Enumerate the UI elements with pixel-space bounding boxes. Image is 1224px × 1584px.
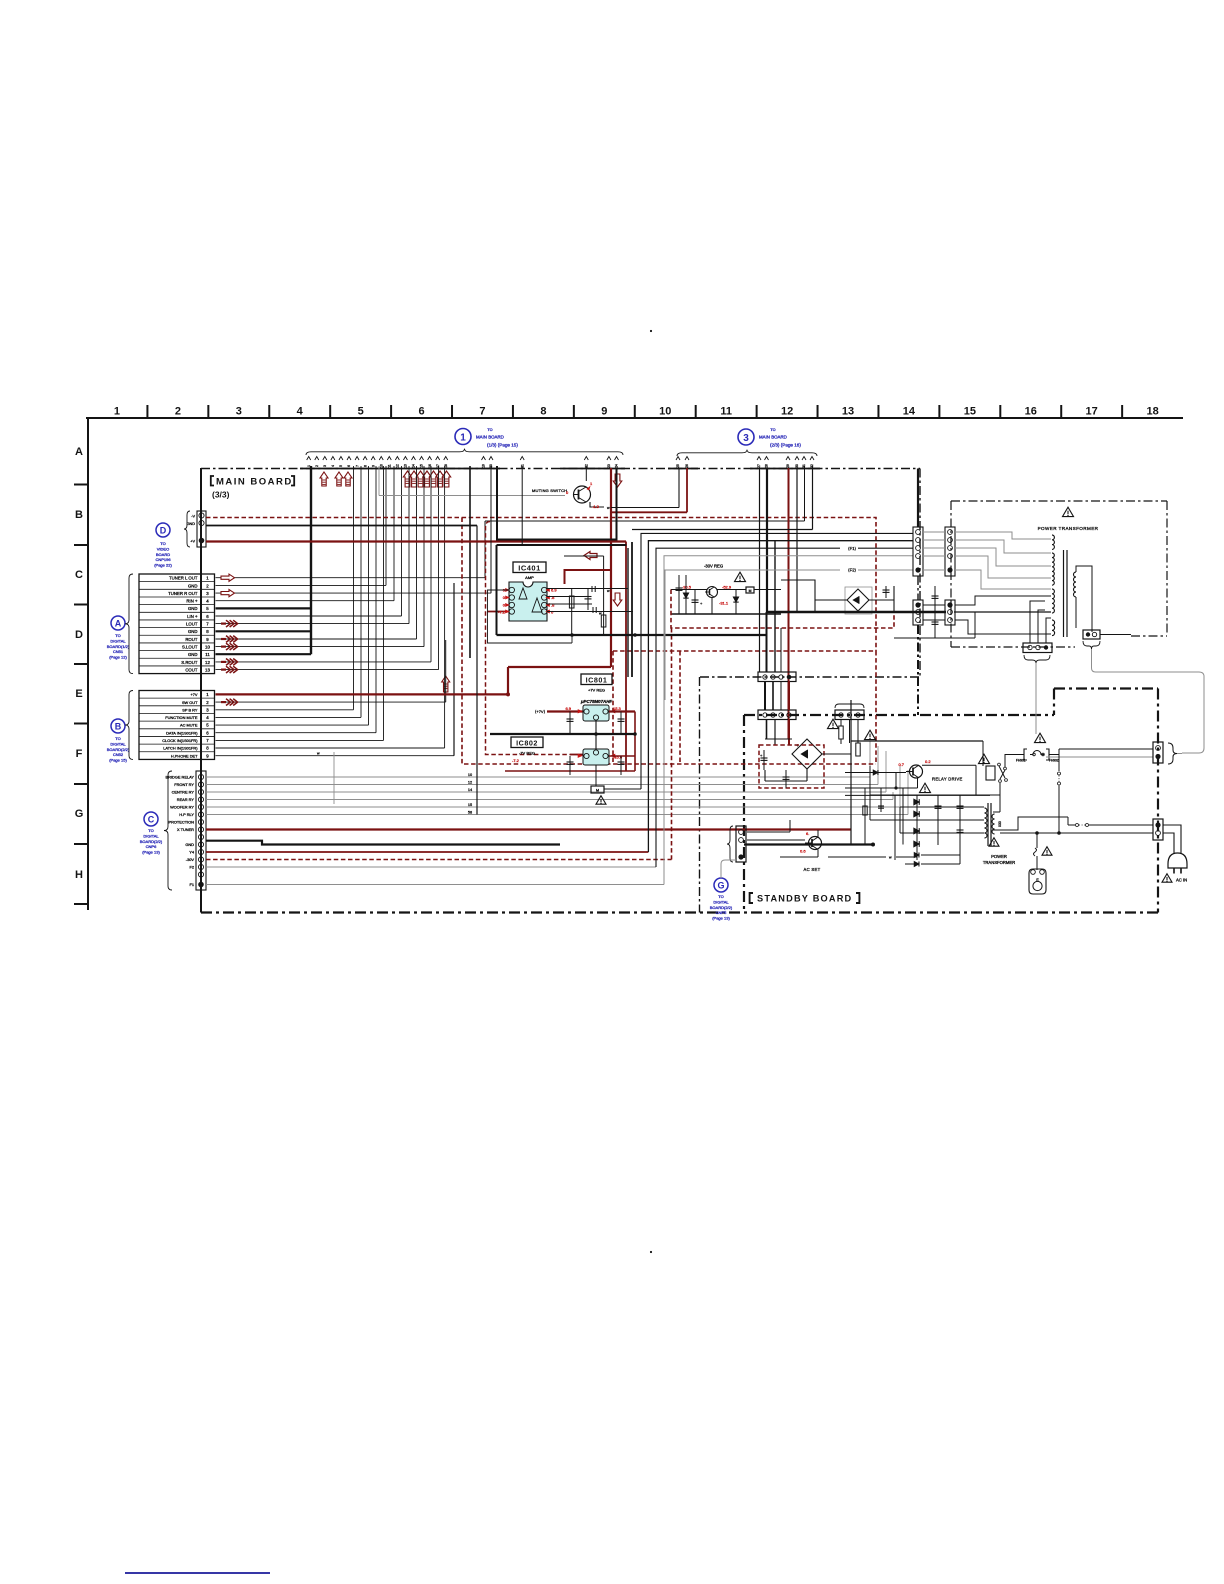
svg-text:10: 10 <box>205 645 210 650</box>
svg-text:-31.1: -31.1 <box>719 601 729 606</box>
relay contact horizontal <box>1067 817 1069 825</box>
svg-text:16: 16 <box>1025 406 1037 418</box>
ac set transistor <box>809 837 822 850</box>
wire y749 <box>1059 748 1153 750</box>
connector D pins <box>199 513 204 518</box>
main board inner dashdot <box>700 676 920 678</box>
svg-text:3: 3 <box>323 465 327 467</box>
long red vertical from pin27 <box>788 468 790 739</box>
relay drive transistor <box>910 765 923 778</box>
svg-text:CNP196: CNP196 <box>155 557 171 562</box>
G wire <box>721 860 736 878</box>
B signal wires <box>216 709 354 711</box>
power transformer warning <box>1063 507 1074 516</box>
svg-text:BOARD(1/2): BOARD(1/2) <box>107 644 130 649</box>
svg-text:A: A <box>75 446 83 458</box>
svg-text:0.6: 0.6 <box>800 849 806 854</box>
svg-text:VIDEO: VIDEO <box>157 546 169 551</box>
svg-text:5: 5 <box>339 465 343 467</box>
svg-text:7: 7 <box>355 465 359 467</box>
relay contact left <box>1000 770 1005 779</box>
main-PT strip 2 upper <box>945 527 955 576</box>
svg-text:1: 1 <box>590 481 593 486</box>
svg-text:4: 4 <box>331 465 335 467</box>
svg-text:GND: GND <box>188 629 198 634</box>
IC802 body <box>583 749 609 765</box>
C GND wire <box>206 841 560 845</box>
svg-text:A: A <box>115 619 122 629</box>
ref 3 circle <box>738 429 754 445</box>
C X TUNER wire <box>206 828 851 830</box>
svg-text:5: 5 <box>206 723 209 728</box>
reg caps <box>569 712 571 734</box>
bridge caps <box>885 586 887 598</box>
svg-text:GND: GND <box>185 842 194 847</box>
svg-text:DATA IN(1S01FR): DATA IN(1S01FR) <box>166 730 198 735</box>
svg-text:M: M <box>749 589 752 593</box>
svg-text:15: 15 <box>964 406 976 418</box>
M box link <box>604 788 641 790</box>
svg-text:6: 6 <box>347 465 351 467</box>
extra relay verticals <box>864 788 866 845</box>
svg-text:D: D <box>160 526 167 536</box>
svg-text:FH902: FH902 <box>1049 759 1059 763</box>
inner dashdot vertical <box>699 677 701 913</box>
IC801 body <box>583 705 609 721</box>
svg-text:6: 6 <box>418 406 424 418</box>
A GND bus <box>216 607 312 609</box>
svg-text:BRIDGE RELAY: BRIDGE RELAY <box>166 775 195 780</box>
signal arrow cluster <box>403 471 411 487</box>
IC801 output wire <box>609 710 635 712</box>
svg-text:2: 2 <box>315 465 319 467</box>
wire y833 <box>1000 832 1153 834</box>
reg center link <box>595 721 597 749</box>
C relay wires gray <box>206 776 870 778</box>
svg-text:w: w <box>317 752 320 756</box>
fuse left wire <box>1005 755 1024 768</box>
component box W <box>591 786 604 793</box>
svg-text:TO: TO <box>115 633 120 638</box>
svg-text:G: G <box>75 808 84 820</box>
svg-text:IC802: IC802 <box>516 739 538 748</box>
svg-text:6: 6 <box>206 730 209 735</box>
svg-text:10: 10 <box>468 773 472 777</box>
dashed red box IC8xx <box>613 650 876 652</box>
transformer out wires <box>993 811 1000 813</box>
main board outline <box>200 468 202 913</box>
PT primary coil <box>1052 553 1054 585</box>
-30V dashed red box <box>671 590 894 629</box>
svg-text:14: 14 <box>412 464 416 468</box>
wire y757 <box>1046 756 1153 758</box>
svg-text:7: 7 <box>206 622 209 627</box>
svg-text:12: 12 <box>396 464 400 468</box>
thick vertical 767 <box>766 468 768 612</box>
svg-text:030: 030 <box>998 821 1002 827</box>
svg-text:-30.5: -30.5 <box>682 585 692 590</box>
svg-text:LATCH IN(1S01FR): LATCH IN(1S01FR) <box>163 746 198 751</box>
svg-text:11: 11 <box>205 652 210 657</box>
vertical 775 <box>774 540 776 620</box>
svg-text:M: M <box>596 789 599 793</box>
svg-text:μPC78M07AHF: μPC78M07AHF <box>580 699 613 704</box>
top connector pins group 3 <box>676 457 680 461</box>
svg-text:ROUT: ROUT <box>185 637 198 642</box>
svg-text:AC SET: AC SET <box>804 867 821 872</box>
standby bridge wires <box>765 738 792 740</box>
svg-text:BOARD(2/2): BOARD(2/2) <box>107 747 130 752</box>
AC IN warning <box>1162 874 1172 883</box>
svg-text:POWER: POWER <box>991 854 1007 859</box>
main-PT strip 1 upper <box>913 527 923 576</box>
signal arrow down top <box>613 474 622 487</box>
net corner wire 2 <box>648 541 913 852</box>
svg-text:2: 2 <box>206 700 209 705</box>
link wire to standby connector <box>1092 649 1205 753</box>
IC801 label <box>581 674 612 685</box>
svg-text:BOARD(2/2): BOARD(2/2) <box>710 905 733 910</box>
svg-text:6: 6 <box>206 614 209 619</box>
svg-text:TO: TO <box>487 428 492 432</box>
ref 3 brace <box>677 450 817 456</box>
svg-text:TO: TO <box>160 541 165 546</box>
AC plug <box>1168 853 1187 868</box>
svg-text:28: 28 <box>765 464 769 468</box>
svg-text:w: w <box>607 506 610 510</box>
row ticks <box>74 484 88 486</box>
svg-text:(Page 12): (Page 12) <box>109 655 127 660</box>
standby 3pin connector C <box>835 710 864 720</box>
connector D brace <box>184 511 190 547</box>
svg-text:(2/3) (Page 16): (2/3) (Page 16) <box>770 443 801 448</box>
svg-text:12: 12 <box>205 660 210 665</box>
svg-text:-V: -V <box>191 514 195 518</box>
net wire F2 <box>664 569 840 571</box>
svg-text:17: 17 <box>1086 406 1098 418</box>
svg-text:15.3: 15.3 <box>613 706 622 711</box>
svg-text:X TUNER: X TUNER <box>177 827 194 832</box>
A1 long route wire <box>484 521 486 578</box>
ref 1 circle <box>455 429 471 445</box>
connector C body <box>196 771 206 890</box>
IC802 output wire <box>609 755 635 757</box>
warning below box <box>596 796 606 805</box>
ref B circle <box>111 719 125 733</box>
PT secondary coil <box>1052 589 1054 613</box>
center double vertical <box>627 548 629 677</box>
svg-text:⟨F1⟩: ⟨F1⟩ <box>848 546 857 551</box>
standby left connector <box>736 826 746 862</box>
PT 3pin feed wires <box>1030 601 1045 643</box>
svg-text:8: 8 <box>363 465 367 467</box>
top edge solid segments <box>300 468 500 470</box>
svg-text:H: H <box>75 869 83 881</box>
relay drive wires <box>850 700 852 845</box>
svg-text:GND: GND <box>188 583 198 588</box>
signal arrow up 3 <box>344 472 352 486</box>
connector A block <box>139 574 215 674</box>
ref A circle <box>111 616 125 630</box>
main board title <box>211 476 214 486</box>
svg-text:1: 1 <box>114 406 120 418</box>
svg-text:+7V REG: +7V REG <box>588 688 605 693</box>
svg-text:+V: +V <box>190 539 195 543</box>
A arrows <box>221 574 235 581</box>
svg-text:15: 15 <box>420 464 424 468</box>
svg-text:D: D <box>75 629 83 641</box>
B row9 wire <box>216 755 455 757</box>
svg-text:27: 27 <box>757 464 761 468</box>
muting U link <box>497 466 617 540</box>
svg-text:11: 11 <box>388 464 392 468</box>
svg-text:29: 29 <box>786 464 790 468</box>
vertical 1059 with contact <box>1058 749 1060 771</box>
svg-text:⟨F2⟩: ⟨F2⟩ <box>848 568 857 573</box>
power transformer box outline <box>950 501 952 647</box>
IC401 pin tick arrows <box>506 589 510 592</box>
svg-text:TO: TO <box>115 736 120 741</box>
net corner wire 1 <box>641 533 913 789</box>
IC401 opamp triangles <box>519 588 527 599</box>
svg-text:8: 8 <box>206 629 209 634</box>
red wire pin26 <box>611 511 687 513</box>
B row1 +7V wire <box>216 693 509 695</box>
svg-text:POWER TRANSFORMER: POWER TRANSFORMER <box>1038 526 1099 531</box>
right connector brace <box>1168 743 1177 764</box>
net corner wire 3 <box>656 548 840 867</box>
svg-text:(3/3): (3/3) <box>212 490 230 500</box>
svg-text:19: 19 <box>482 464 486 468</box>
svg-text:-30V: -30V <box>186 857 195 862</box>
relay box <box>986 766 995 780</box>
svg-text:30: 30 <box>795 464 799 468</box>
svg-text:CLOCK IN(1S01FR): CLOCK IN(1S01FR) <box>162 738 198 743</box>
svg-text:1: 1 <box>206 576 209 581</box>
svg-text:F1: F1 <box>189 882 194 887</box>
svg-text:9: 9 <box>206 637 209 642</box>
signal arrow up 2 <box>335 472 343 486</box>
svg-text:WOOFER RY: WOOFER RY <box>170 805 194 810</box>
signal arrow up 1 <box>320 472 328 486</box>
svg-text:9: 9 <box>601 406 607 418</box>
svg-text:10: 10 <box>379 464 383 468</box>
svg-text:12: 12 <box>781 406 793 418</box>
PT stepped wires <box>955 532 1051 539</box>
svg-text:RELAY DRIVE: RELAY DRIVE <box>932 777 963 782</box>
C riser wires <box>869 741 871 777</box>
standby 4pin connector B <box>758 710 796 720</box>
svg-text:-7V REG: -7V REG <box>519 751 535 756</box>
main board right vertical <box>917 469 919 528</box>
svg-text:IC401: IC401 <box>518 564 541 573</box>
IC401 red feed <box>565 570 612 584</box>
PT core <box>1063 550 1065 637</box>
muting collector wire <box>590 502 604 507</box>
PT primary coil top <box>1052 535 1054 549</box>
svg-text:9: 9 <box>371 465 375 467</box>
C Y4 wire <box>206 851 648 853</box>
svg-text:FRONT RY: FRONT RY <box>174 782 194 787</box>
fuse FH901 FH902 <box>1024 749 1027 760</box>
svg-text:CNP6: CNP6 <box>146 844 157 849</box>
gray box 30V area <box>664 570 666 700</box>
signal arrow left <box>584 552 597 560</box>
svg-text:FH901: FH901 <box>1016 759 1026 763</box>
-30V circuit lines <box>671 589 707 591</box>
B arrow <box>221 701 226 703</box>
IC401 label <box>513 562 546 573</box>
svg-text:LIN +: LIN + <box>187 614 198 619</box>
svg-text:G: G <box>717 881 724 891</box>
svg-text:13: 13 <box>842 406 854 418</box>
wire fuse to pin <box>1049 754 1059 756</box>
gray riser <box>333 752 335 804</box>
connector C brace <box>164 771 172 890</box>
PT 3pin brace <box>1024 655 1050 663</box>
svg-text:DIGITAL: DIGITAL <box>110 638 126 643</box>
thick vertical 760 <box>759 468 761 612</box>
standby res boxes <box>840 719 842 726</box>
strip link wires <box>923 531 945 533</box>
svg-text:H.PHONE DET: H.PHONE DET <box>171 753 198 758</box>
svg-text:IC801: IC801 <box>586 676 608 685</box>
cap ladder <box>959 795 961 845</box>
svg-text:SW OUT: SW OUT <box>182 700 198 705</box>
svg-text:(Page 13): (Page 13) <box>712 916 730 921</box>
ruler ticks <box>146 405 148 418</box>
IC401 pin4 red stub <box>487 611 509 613</box>
svg-text:-30V REG: -30V REG <box>704 564 723 569</box>
red rail vertical <box>610 468 612 667</box>
svg-text:(1/3) (Page 15): (1/3) (Page 15) <box>487 443 518 448</box>
page border ruler line <box>86 417 1183 419</box>
svg-text:4: 4 <box>206 599 209 604</box>
muting switch Q1 <box>574 486 591 503</box>
svg-text:B: B <box>75 509 83 521</box>
svg-text:2: 2 <box>175 406 181 418</box>
standby board title <box>750 893 753 903</box>
signal arrow up mid <box>442 676 450 692</box>
bridge rectifier D801 <box>847 589 869 611</box>
svg-text:COUT: COUT <box>185 668 198 673</box>
PT 2pin brace <box>1083 641 1100 649</box>
svg-text:23: 23 <box>607 464 611 468</box>
svg-text:C: C <box>148 815 155 825</box>
svg-text:-52.9: -52.9 <box>722 585 732 590</box>
svg-text:5: 5 <box>206 606 209 611</box>
wires from top pins down <box>490 466 492 593</box>
ref 1 brace <box>306 449 623 455</box>
svg-text:(Page 22): (Page 22) <box>154 563 172 568</box>
svg-text:CNP5: CNP5 <box>716 910 727 915</box>
svg-text:TO: TO <box>148 828 153 833</box>
svg-text:BOARD(2/2): BOARD(2/2) <box>140 839 163 844</box>
svg-text:E: E <box>75 688 82 700</box>
svg-text:-7.2: -7.2 <box>498 610 506 615</box>
standby warnings <box>828 719 839 728</box>
IC401 input loop <box>488 590 573 643</box>
svg-text:26: 26 <box>685 464 689 468</box>
svg-text:5: 5 <box>358 406 364 418</box>
PT right coil <box>1074 572 1077 597</box>
heavy bus y612 <box>767 611 946 613</box>
svg-text:4: 4 <box>206 715 209 720</box>
PT 2pin connector <box>1083 630 1100 639</box>
svg-text:+: + <box>700 601 703 606</box>
standby 4pin connector A <box>758 672 796 682</box>
svg-text:DIGITAL: DIGITAL <box>713 899 729 904</box>
signal arrow down mid <box>613 593 622 606</box>
IC802 gnd link <box>595 765 597 786</box>
connector A brace <box>125 574 133 674</box>
svg-text:w: w <box>889 856 892 860</box>
left border line <box>87 418 89 910</box>
wire pin32 <box>812 466 814 530</box>
svg-text:TUNER L OUT: TUNER L OUT <box>169 576 198 581</box>
svg-text:1: 1 <box>460 433 466 444</box>
wire down to standby <box>1035 663 1037 734</box>
svg-text:0.2: 0.2 <box>925 759 931 764</box>
svg-text:MUTING SWITCH: MUTING SWITCH <box>532 488 567 493</box>
svg-text:AC MUTE: AC MUTE <box>180 723 198 728</box>
svg-text:S.LOUT: S.LOUT <box>182 645 198 650</box>
connector B block <box>139 691 215 760</box>
svg-text:0: 0 <box>566 490 569 495</box>
C F2 wire <box>206 866 656 868</box>
IC401 circuit box <box>497 544 627 546</box>
svg-text:7: 7 <box>206 738 209 743</box>
dashed red branch down <box>462 518 876 765</box>
svg-text:REAR RY: REAR RY <box>177 797 195 802</box>
svg-text:-7.2: -7.2 <box>512 758 520 763</box>
grid lines standby <box>870 794 984 796</box>
svg-text:3: 3 <box>236 406 242 418</box>
svg-text:14: 14 <box>468 788 472 792</box>
svg-text:14: 14 <box>903 406 916 418</box>
svg-text:SP B RY: SP B RY <box>182 707 198 712</box>
svg-text:18: 18 <box>1146 406 1158 418</box>
IC401 inner parts <box>571 589 573 636</box>
svg-text:(Page 15): (Page 15) <box>109 758 127 763</box>
svg-text:GND: GND <box>188 652 198 657</box>
svg-text:4: 4 <box>297 406 304 418</box>
PT right coil wires <box>1076 566 1092 632</box>
svg-text:PROTECTION: PROTECTION <box>168 820 194 825</box>
svg-text:11: 11 <box>720 406 732 418</box>
red vertical 626 <box>625 542 627 772</box>
vertical 797 <box>796 468 798 612</box>
svg-text:3: 3 <box>743 433 749 444</box>
PT 3pin connector <box>1023 643 1052 653</box>
svg-text:C: C <box>75 569 83 581</box>
-30V transistor <box>707 587 718 598</box>
ref D circle <box>156 523 170 537</box>
svg-text:⟨+7V⟩: ⟨+7V⟩ <box>535 709 546 714</box>
svg-text:GND: GND <box>188 606 198 611</box>
svg-text:FUNCTION MUTE: FUNCTION MUTE <box>165 715 198 720</box>
svg-text:15: 15 <box>468 803 472 807</box>
svg-text:6.: 6. <box>806 831 809 836</box>
footer line <box>125 1572 270 1574</box>
E socket <box>1029 869 1046 894</box>
svg-text:MAIN BOARD: MAIN BOARD <box>476 435 504 440</box>
C F1 wire <box>206 884 664 886</box>
connector D body <box>197 511 206 547</box>
svg-text:2: 2 <box>206 583 209 588</box>
page dot 2 <box>650 1251 652 1253</box>
-30V component box <box>746 587 754 593</box>
